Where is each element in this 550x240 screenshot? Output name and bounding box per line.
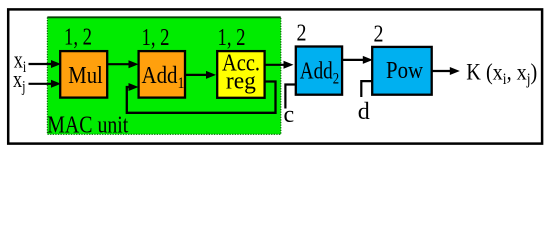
svg-text:c: c [284, 102, 295, 128]
svg-text:2: 2 [374, 21, 384, 47]
wire Mul to Add1 [107, 63, 129, 65]
wire Acc reg to Add2 [265, 64, 284, 66]
svg-text:d: d [358, 99, 370, 125]
block Add2 [296, 47, 342, 95]
svg-text:Pow: Pow [386, 58, 424, 84]
outer frame [8, 9, 542, 143]
wire xi to Mul [29, 63, 52, 65]
svg-text:Mul: Mul [68, 63, 103, 89]
svg-text:1, 2: 1, 2 [64, 25, 92, 51]
svg-text:1, 2: 1, 2 [218, 25, 246, 51]
block Acc. reg [217, 51, 264, 98]
svg-text:K (xi, xj): K (xi, xj) [466, 60, 537, 89]
wire xj to Mul [29, 83, 52, 85]
feedback wire Acc reg to Add1 [127, 82, 276, 113]
MAC unit region top edge [47, 16, 280, 18]
MAC unit green region [47, 17, 280, 134]
svg-text:2: 2 [297, 20, 307, 46]
wire Add1 to Acc reg [185, 74, 207, 76]
svg-text:reg: reg [226, 68, 256, 94]
wire Add2 to Pow [342, 59, 363, 61]
wire Pow to output [432, 70, 451, 72]
block Add1 [139, 51, 185, 98]
block Mul [60, 51, 107, 98]
svg-text:MAC unit: MAC unit [47, 113, 128, 139]
svg-text:1, 2: 1, 2 [142, 25, 170, 51]
block Pow [372, 47, 432, 95]
node c wire into Add2 [285, 85, 295, 109]
node d wire into Pow [361, 81, 372, 97]
